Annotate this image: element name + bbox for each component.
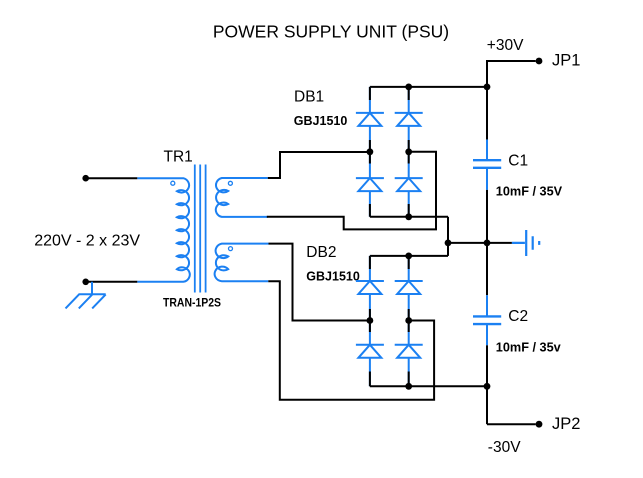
wire sec1-bottom to DB1 AC2 xyxy=(267,152,436,230)
ground (earth) xyxy=(66,282,106,309)
svg-text:C2: C2 xyxy=(508,308,528,325)
junction DB1 bottom xyxy=(405,213,412,220)
wire DB1 top rail xyxy=(370,86,487,88)
connector JP2 xyxy=(487,415,580,433)
svg-text:JP1: JP1 xyxy=(552,52,580,70)
wire sec1-top to DB1 AC1 xyxy=(268,152,370,178)
input terminal bottom xyxy=(82,279,137,286)
diode D3 (DB1 lower-left) xyxy=(356,178,384,191)
wire rail middle black xyxy=(486,190,488,295)
wire DB1 left column xyxy=(369,87,371,217)
primary winding xyxy=(137,178,189,282)
wire DB2 bottom rail xyxy=(370,385,487,387)
wire ground row xyxy=(448,242,512,244)
svg-text:GBJ1510: GBJ1510 xyxy=(294,113,348,128)
wire input bottom xyxy=(86,281,138,283)
svg-text:JP2: JP2 xyxy=(552,415,580,433)
wire DB2 left column xyxy=(369,256,371,386)
svg-text:TR1: TR1 xyxy=(164,149,193,166)
diode D6 (DB2 upper-right) xyxy=(395,281,423,294)
diode D5 (DB2 upper-left) xyxy=(356,281,384,294)
svg-text:POWER SUPPLY UNIT (PSU): POWER SUPPLY UNIT (PSU) xyxy=(213,22,449,42)
secondary winding top xyxy=(216,178,268,217)
junction DB1 mid-left xyxy=(367,148,374,155)
diode D4 (DB1 lower-right) xyxy=(395,178,423,191)
wire input top xyxy=(86,177,138,179)
junction rail top xyxy=(484,84,491,91)
svg-text:10mF / 35v: 10mF / 35v xyxy=(496,341,561,355)
core xyxy=(195,165,206,293)
wire sec2-bottom to DB2 AC2 xyxy=(268,281,434,400)
bridge DB2 xyxy=(306,244,487,390)
primary polarity dot xyxy=(171,181,175,185)
wire black overlays columns xyxy=(370,87,409,217)
wire DB2 top rail xyxy=(370,255,448,257)
transformer TR1 xyxy=(137,149,268,310)
junction DB1 top-right xyxy=(405,84,412,91)
svg-text:GBJ1510: GBJ1510 xyxy=(306,269,360,284)
wire rail bottom black xyxy=(486,345,488,424)
svg-text:C1: C1 xyxy=(508,153,528,170)
wire DB2 right column xyxy=(408,256,410,386)
wire black overlays columns xyxy=(370,256,409,386)
secondary top polarity dot xyxy=(228,181,232,185)
junction DB2 mid-left xyxy=(367,317,374,324)
secondary winding bottom xyxy=(215,244,269,282)
secondary bottom polarity dot xyxy=(229,247,233,251)
diode D2 (DB1 upper-right) xyxy=(395,113,423,126)
capacitor C1 xyxy=(473,140,563,199)
right rail xyxy=(473,61,563,424)
wire rail top black xyxy=(486,61,488,140)
junction mid link xyxy=(445,240,452,247)
svg-text:220V - 2 x 23V: 220V - 2 x 23V xyxy=(34,232,140,249)
svg-text:10mF / 35V: 10mF / 35V xyxy=(496,184,563,198)
bridge DB1 xyxy=(294,84,487,221)
junction DB2 top-right xyxy=(405,253,412,260)
capacitor C2 xyxy=(473,295,561,355)
svg-text:-30V: -30V xyxy=(488,439,521,456)
svg-text:DB2: DB2 xyxy=(306,244,336,261)
wire DB1 bottom rail xyxy=(370,216,448,218)
connector JP1 xyxy=(487,52,580,87)
diode D7 (DB2 lower-left) xyxy=(356,345,384,358)
wire sec2-top to DB2 AC1 xyxy=(269,244,370,321)
wire DB1 right column xyxy=(408,87,410,217)
svg-text:DB1: DB1 xyxy=(294,89,324,106)
input terminal top xyxy=(82,175,137,182)
junction rail bottom xyxy=(484,383,491,390)
junction DB2 mid-right xyxy=(405,317,412,324)
wire DB1 bottom to DB2 top xyxy=(447,217,449,256)
junction DB1 mid-right xyxy=(405,148,412,155)
svg-text:TRAN-1P2S: TRAN-1P2S xyxy=(163,297,221,309)
svg-text:+30V: +30V xyxy=(487,37,524,54)
junction rail-ground xyxy=(484,240,491,247)
junction DB2 bottom xyxy=(405,383,412,390)
diode D1 (DB1 upper-left) xyxy=(356,113,384,126)
diode D8 (DB2 lower-right) xyxy=(395,345,423,358)
ground (signal) xyxy=(512,230,539,256)
